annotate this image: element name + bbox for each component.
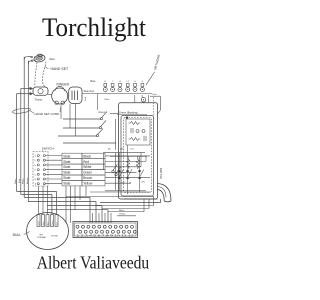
svg-text:Yellow: Yellow — [83, 182, 93, 186]
svg-text:Green: Green — [52, 221, 54, 226]
svg-text:PULSE: PULSE — [51, 236, 58, 238]
svg-text:Slate: Slate — [14, 178, 17, 184]
svg-text:MTS 4969: MTS 4969 — [160, 167, 163, 179]
svg-text:Slate: Slate — [63, 165, 70, 169]
svg-text:(G): (G) — [131, 149, 134, 151]
svg-text:Black: Black — [83, 154, 91, 158]
svg-text:Slate: Slate — [42, 221, 45, 225]
svg-text:HAND SET: HAND SET — [51, 67, 70, 71]
svg-text:Albert Valiaveedu: Albert Valiaveedu — [37, 253, 149, 273]
svg-text:NORMAL: NORMAL — [38, 236, 47, 239]
svg-text:Red: Red — [83, 160, 89, 164]
svg-text:Brown: Brown — [83, 176, 92, 180]
svg-text:Slate: Slate — [90, 80, 96, 83]
svg-text:Slate Red: Slate Red — [83, 90, 94, 93]
svg-text:1 2 3 4 5 6 7 8 9 10 11 12: 1 2 3 4 5 6 7 8 9 10 11 12 — [77, 233, 135, 237]
svg-text:White: White — [37, 221, 40, 226]
svg-text:Black: Black — [119, 210, 125, 212]
svg-text:Red: Red — [85, 97, 87, 101]
svg-text:Blue: Blue — [47, 222, 49, 226]
svg-text:Yellow: Yellow — [119, 213, 126, 215]
svg-text:Rec.: Rec. — [50, 57, 56, 61]
svg-text:Slate: Slate — [63, 176, 70, 180]
svg-text:SWITCH: SWITCH — [42, 147, 54, 151]
svg-text:DIAL: DIAL — [13, 233, 21, 237]
svg-text:HAND SET CORD: HAND SET CORD — [35, 112, 61, 116]
svg-text:(W): (W) — [120, 149, 124, 151]
svg-text:Brown: Brown — [26, 177, 29, 184]
svg-text:Slate: Slate — [63, 160, 70, 164]
svg-text:Green (Backing): Green (Backing) — [119, 110, 138, 114]
svg-text:Green: Green — [83, 171, 92, 175]
svg-text:GN: GN — [141, 182, 145, 184]
svg-text:Torchlight: Torchlight — [42, 13, 147, 42]
svg-text:Black: Black — [105, 99, 110, 101]
svg-text:White: White — [22, 178, 25, 184]
svg-text:Trans.: Trans. — [35, 98, 44, 102]
svg-text:Red: Red — [56, 222, 58, 225]
svg-text:RINGER: RINGER — [57, 82, 70, 86]
svg-text:Green: Green — [99, 111, 106, 114]
svg-text:White: White — [83, 165, 91, 169]
svg-text:Slate: Slate — [63, 154, 70, 158]
svg-text:Slate: Slate — [63, 182, 70, 186]
svg-text:(B): (B) — [108, 149, 111, 151]
svg-text:Slate: Slate — [63, 171, 70, 175]
